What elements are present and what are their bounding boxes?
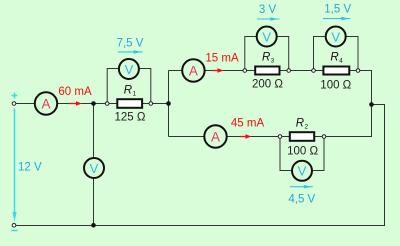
svg-text:100 Ω: 100 Ω xyxy=(320,80,351,92)
svg-text:R: R xyxy=(330,52,338,64)
svg-text:3 V: 3 V xyxy=(259,4,277,16)
svg-text:12 V: 12 V xyxy=(18,161,42,173)
svg-text:100 Ω: 100 Ω xyxy=(287,146,318,158)
svg-text:200 Ω: 200 Ω xyxy=(252,78,283,90)
svg-text:1,5 V: 1,5 V xyxy=(324,4,351,16)
svg-text:45 mA: 45 mA xyxy=(231,118,265,130)
svg-text:V: V xyxy=(331,29,340,44)
svg-text:V: V xyxy=(298,164,307,179)
svg-text:15 mA: 15 mA xyxy=(205,53,239,65)
svg-text:R: R xyxy=(296,118,304,130)
svg-text:V: V xyxy=(125,62,134,77)
svg-text:R: R xyxy=(262,52,270,64)
svg-text:1: 1 xyxy=(133,90,137,97)
svg-text:R: R xyxy=(124,84,132,96)
svg-text:4: 4 xyxy=(339,58,343,65)
svg-text:7,5 V: 7,5 V xyxy=(117,38,144,50)
svg-text:2: 2 xyxy=(305,124,309,131)
svg-text:A: A xyxy=(211,130,220,145)
svg-text:3: 3 xyxy=(271,58,275,65)
svg-text:V: V xyxy=(90,161,99,176)
svg-text:4,5 V: 4,5 V xyxy=(288,194,315,206)
svg-text:A: A xyxy=(189,64,198,79)
svg-text:V: V xyxy=(262,29,271,44)
svg-text:60 mA: 60 mA xyxy=(58,86,92,98)
svg-text:A: A xyxy=(41,97,50,112)
svg-text:125 Ω: 125 Ω xyxy=(115,112,146,124)
